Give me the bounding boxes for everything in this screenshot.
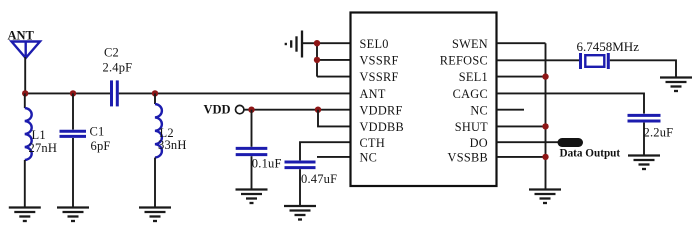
wire VSSRF2 stub [317, 76, 351, 78]
svg-text:0.47uF: 0.47uF [301, 172, 337, 186]
svg-text:33nH: 33nH [158, 138, 187, 152]
svg-text:ANT: ANT [360, 87, 386, 101]
ground IC right bus [529, 190, 561, 204]
node VSSRF junction [314, 57, 320, 63]
wire crystal to ground [610, 60, 676, 77]
wire NC left stub [317, 156, 351, 158]
wire RF rail left of C2 [25, 92, 110, 94]
wire VDD to VDDRF pin [244, 109, 351, 111]
svg-text:DO: DO [470, 136, 488, 150]
capacitor C2 [112, 80, 118, 106]
svg-text:6pF: 6pF [91, 139, 111, 153]
wire SWEN stub [497, 42, 546, 44]
capacitor C1 [60, 93, 87, 207]
svg-text:NC: NC [470, 103, 488, 117]
wire SEL0 stub [317, 42, 351, 44]
wire RF rail right of C2 to ANT pin [119, 92, 351, 94]
ground 0.1uF [236, 190, 268, 204]
ground SEL0/VSSRF (sideways) [286, 31, 317, 58]
node 0.1uF junction [248, 107, 254, 113]
svg-text:VSSBB: VSSBB [448, 151, 488, 165]
node VDDBB branch junction [315, 107, 321, 113]
wire VSSBB stub [497, 156, 546, 158]
svg-text:REFOSC: REFOSC [440, 54, 488, 68]
svg-text:VSSRF: VSSRF [360, 70, 399, 84]
ground 0.47uF [284, 206, 316, 220]
ground crystal [660, 78, 692, 92]
ground L2 [139, 208, 171, 222]
svg-text:VSSRF: VSSRF [360, 54, 399, 68]
svg-text:C2: C2 [104, 46, 119, 60]
wire SHUT stub [497, 125, 546, 127]
svg-text:CAGC: CAGC [453, 87, 488, 101]
wire antenna feed [24, 57, 26, 93]
svg-text:L1: L1 [32, 128, 46, 142]
ground L1 [9, 208, 41, 222]
node VDD terminal circle [236, 105, 244, 113]
crystal Y1 6.7458MHz [581, 53, 609, 69]
capacitor 0.47uF [285, 162, 316, 206]
op-amp U1 (receiver IC body) [351, 13, 497, 187]
svg-text:2.4pF: 2.4pF [103, 61, 133, 75]
svg-text:VDDBB: VDDBB [360, 120, 405, 134]
node SHUT junction [542, 123, 548, 129]
svg-text:27nH: 27nH [29, 141, 58, 155]
svg-text:CTH: CTH [360, 136, 386, 150]
wire ground bus right [545, 43, 547, 188]
node L2 junction [152, 90, 158, 96]
inductor L1 [25, 93, 32, 207]
wire SEL1 stub [497, 76, 546, 78]
wire VSSRF stub [317, 59, 351, 61]
capacitor 0.1uF [236, 110, 268, 189]
wire NC right stub [497, 109, 525, 111]
wire DO to data output [497, 141, 560, 143]
svg-text:SHUT: SHUT [455, 120, 488, 134]
svg-text:SWEN: SWEN [452, 37, 488, 51]
svg-text:C1: C1 [90, 125, 105, 139]
capacitor 2.2uF [628, 115, 661, 155]
node antenna/L1 junction [22, 90, 28, 96]
node VSSBB junction [542, 154, 548, 160]
wire CAGC to 2.2uF [497, 93, 645, 113]
ground 2.2uF [628, 156, 660, 170]
node SEL0 junction [314, 40, 320, 46]
svg-text:6.7458MHz: 6.7458MHz [577, 39, 640, 54]
inductor L2 [155, 93, 162, 207]
svg-text:Data Output: Data Output [560, 148, 621, 160]
wire REFOSC to crystal [497, 59, 580, 61]
svg-text:NC: NC [360, 151, 378, 165]
svg-text:0.1uF: 0.1uF [252, 157, 282, 171]
wire VDDBB branch [318, 110, 351, 127]
svg-text:SEL0: SEL0 [360, 37, 389, 51]
svg-text:VDDRF: VDDRF [360, 103, 403, 117]
wire ground bus left [316, 43, 318, 76]
wire CTH to 0.47uF [300, 142, 351, 160]
node Data Output terminal [558, 138, 584, 147]
svg-text:2.2uF: 2.2uF [644, 126, 674, 140]
svg-text:SEL1: SEL1 [459, 70, 488, 84]
antenna ANT [8, 29, 41, 59]
ground C1 [57, 208, 89, 222]
svg-text:VDD: VDD [204, 103, 231, 117]
node SEL1 junction [542, 73, 548, 79]
node C1 junction [70, 90, 76, 96]
